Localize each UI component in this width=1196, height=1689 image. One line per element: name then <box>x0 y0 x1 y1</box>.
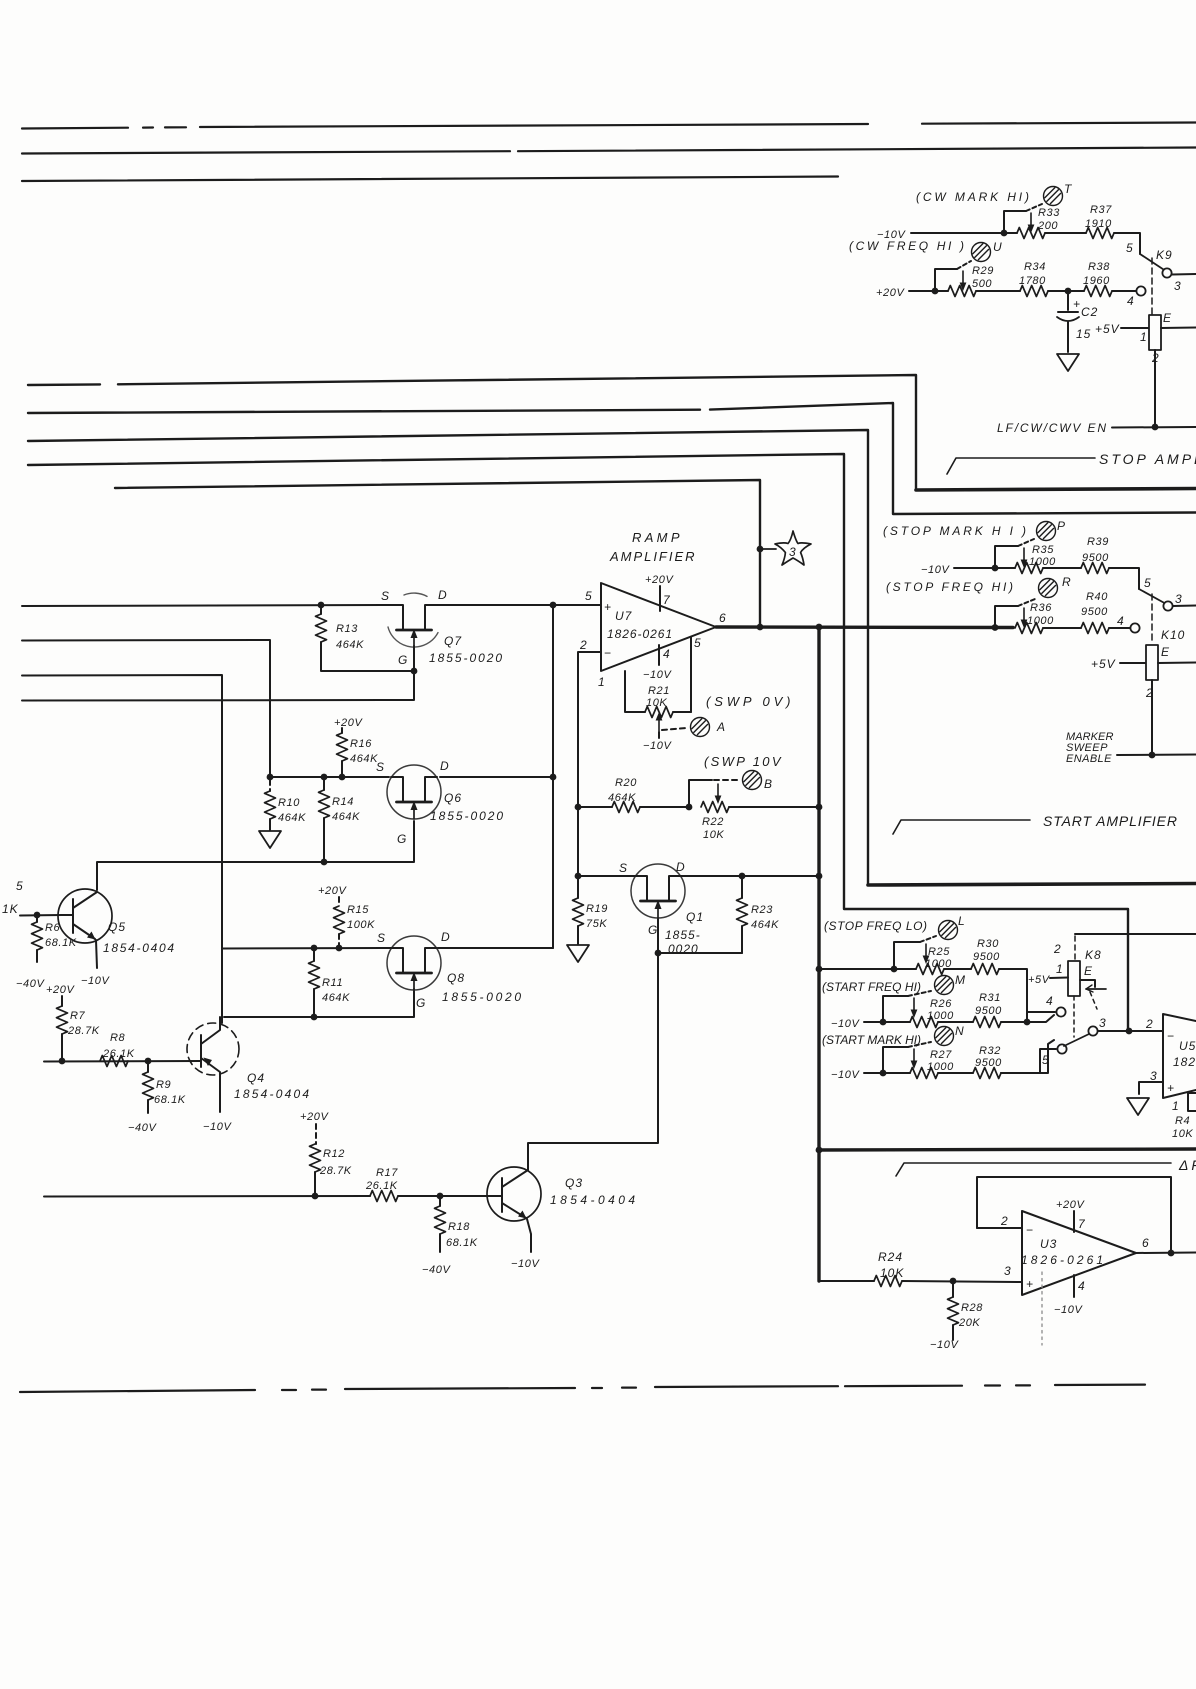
svg-text:10K: 10K <box>703 829 724 841</box>
svg-text:R40: R40 <box>1086 591 1108 603</box>
svg-text:R26: R26 <box>930 998 952 1010</box>
svg-text:Q6: Q6 <box>444 791 462 805</box>
potentiometer R33 200 <box>1001 204 1061 239</box>
svg-text:M: M <box>955 973 966 987</box>
svg-text:R15: R15 <box>347 904 369 916</box>
svg-text:−10V: −10V <box>643 669 672 681</box>
svg-text:R24: R24 <box>878 1250 903 1264</box>
svg-text:R22: R22 <box>702 816 724 828</box>
resistor R41 10K (partial, page edge) <box>1188 1093 1196 1111</box>
svg-text:6: 6 <box>719 611 726 625</box>
svg-text:2: 2 <box>1000 1214 1008 1228</box>
svg-text:4: 4 <box>1117 614 1124 628</box>
svg-text:3: 3 <box>1004 1264 1011 1278</box>
relay K8 coil <box>1068 961 1080 996</box>
fold artifact (faint) <box>1041 1272 1043 1345</box>
svg-text:(STOP MARK H I ): (STOP MARK H I ) <box>883 524 1027 538</box>
resistor R10 464K to ground <box>259 774 306 848</box>
svg-text:6: 6 <box>1142 1236 1149 1250</box>
relay K10 coil <box>1146 645 1158 680</box>
transistor Q7 1855-0020 <box>381 588 503 674</box>
transistor Q8 1855-0020 <box>377 930 522 1010</box>
svg-text:Q1: Q1 <box>686 910 704 924</box>
svg-text:5: 5 <box>1042 1053 1049 1067</box>
wire K9 coil to enable <box>1154 350 1156 427</box>
svg-text:(SWP 10V: (SWP 10V <box>704 754 782 769</box>
wire R20/R22 row <box>578 806 817 808</box>
svg-text:4: 4 <box>1078 1279 1085 1293</box>
svg-text:5: 5 <box>1144 576 1151 590</box>
wire drain bus vertical <box>552 605 554 948</box>
wire delta section feed (heavy) <box>819 1149 1196 1150</box>
relay K8 contact 4 <box>1027 1012 1055 1022</box>
potentiometer R22 10K <box>686 780 729 841</box>
wire Q5 base <box>20 914 62 917</box>
svg-text:−40V: −40V <box>16 978 45 990</box>
svg-text:R39: R39 <box>1087 536 1109 548</box>
label delta amplifier leader <box>896 1163 1171 1176</box>
svg-text:R36: R36 <box>1030 602 1052 614</box>
wire bus L5 <box>115 480 760 627</box>
svg-text:1855-0020: 1855-0020 <box>430 809 504 823</box>
wire enable out <box>1112 426 1196 429</box>
svg-text:464K: 464K <box>332 811 360 823</box>
svg-text:1854-0404: 1854-0404 <box>550 1193 636 1207</box>
svg-text:464K: 464K <box>278 812 306 824</box>
svg-text:+: + <box>1167 1081 1174 1095</box>
node star flag 3 <box>757 546 764 553</box>
svg-text:L: L <box>958 914 966 928</box>
svg-text:−: − <box>604 646 611 660</box>
border stop amplifier (heavy) <box>916 489 1196 491</box>
svg-text:4: 4 <box>1127 294 1134 308</box>
relay K8 arm <box>1064 1034 1089 1046</box>
svg-text:STOP AMPLI: STOP AMPLI <box>1099 451 1196 467</box>
svg-text:B: B <box>764 777 773 791</box>
test point L <box>939 921 958 940</box>
svg-text:1855-0020: 1855-0020 <box>442 990 522 1004</box>
svg-text:100K: 100K <box>347 919 375 931</box>
relay K8 contact 5 <box>1001 1049 1056 1073</box>
svg-text:9500: 9500 <box>1082 552 1109 564</box>
svg-text:G: G <box>398 653 408 667</box>
svg-text:K10: K10 <box>1161 628 1185 642</box>
svg-text:Q3: Q3 <box>565 1176 583 1190</box>
svg-text:1826-0261: 1826-0261 <box>607 627 673 641</box>
svg-text:1000: 1000 <box>1027 615 1054 627</box>
svg-text:R34: R34 <box>1024 261 1046 273</box>
svg-text:500: 500 <box>972 278 992 290</box>
transistor Q5 1854-0404 <box>58 889 175 987</box>
resistor R8 26.1K <box>100 1032 135 1067</box>
relay K8 contact 3 <box>1088 1026 1097 1035</box>
svg-text:5: 5 <box>16 879 24 893</box>
wire bus L2 <box>28 403 1196 514</box>
svg-text:1910: 1910 <box>1085 218 1112 230</box>
resistor R28 20K <box>930 1281 983 1351</box>
resistor R40 9500 <box>1081 591 1109 634</box>
svg-text:−40V: −40V <box>128 1122 157 1134</box>
svg-text:1854-0404: 1854-0404 <box>234 1087 310 1101</box>
svg-text:R27: R27 <box>930 1049 952 1061</box>
svg-text:AMPLIFIER: AMPLIFIER <box>609 549 696 564</box>
potentiometer R27 1000 <box>880 1042 955 1079</box>
svg-text:1000: 1000 <box>925 958 952 970</box>
resistor R7 28.7K <box>57 996 100 1061</box>
svg-text:3: 3 <box>1175 592 1182 606</box>
svg-text:26.1K: 26.1K <box>102 1048 135 1060</box>
power -10V pin4 <box>658 645 660 665</box>
svg-text:R28: R28 <box>961 1302 983 1314</box>
svg-text:−: − <box>1167 1029 1174 1043</box>
svg-text:1000: 1000 <box>927 1010 954 1022</box>
svg-text:R14: R14 <box>332 796 354 808</box>
wire bus L1 to stop-section border <box>28 375 916 490</box>
svg-text:−10V: −10V <box>831 1069 860 1081</box>
svg-text:464K: 464K <box>350 753 378 765</box>
svg-text:5: 5 <box>585 589 592 603</box>
wire K8 pin2 in <box>1075 933 1196 935</box>
svg-text:R33: R33 <box>1038 207 1060 219</box>
svg-text:1780: 1780 <box>1019 275 1046 287</box>
svg-text:START AMPLIFIER: START AMPLIFIER <box>1043 813 1180 829</box>
svg-text:R4: R4 <box>1175 1115 1190 1127</box>
svg-text:D: D <box>676 860 686 874</box>
svg-text:1000: 1000 <box>927 1061 954 1073</box>
svg-text:+: + <box>1026 1277 1033 1291</box>
ground U5 pin3 <box>1127 1098 1149 1115</box>
resistor R11 464K <box>309 945 351 1021</box>
potentiometer R26 1000 <box>880 991 955 1028</box>
resistor R23 464K <box>737 876 780 953</box>
svg-text:G: G <box>397 832 407 846</box>
resistor R34 1780 <box>1019 261 1048 297</box>
svg-text:R38: R38 <box>1088 261 1110 273</box>
resistor R14 464K <box>319 774 361 866</box>
test point M <box>935 976 954 995</box>
svg-text:ENABLE: ENABLE <box>1066 753 1112 765</box>
svg-text:5: 5 <box>1126 241 1133 255</box>
svg-text:R23: R23 <box>751 904 773 916</box>
svg-text:68.1K: 68.1K <box>446 1237 478 1249</box>
svg-text:R31: R31 <box>979 992 1001 1004</box>
wire U3 output <box>1136 1252 1196 1255</box>
svg-text:20K: 20K <box>958 1317 980 1329</box>
svg-text:7: 7 <box>1078 1217 1086 1231</box>
resistor R9 68.1K <box>128 1061 186 1134</box>
svg-text:T: T <box>1064 182 1073 196</box>
relay K9 contact 4 <box>1136 286 1145 295</box>
svg-text:K8: K8 <box>1085 948 1102 962</box>
wire W1 to Q7 source <box>22 605 601 606</box>
svg-text:R10: R10 <box>278 797 300 809</box>
svg-text:R8: R8 <box>110 1032 126 1044</box>
svg-text:−10V: −10V <box>203 1121 232 1133</box>
svg-text:9500: 9500 <box>973 951 1000 963</box>
resistor R39 9500 <box>1081 536 1109 574</box>
svg-text:9500: 9500 <box>1081 606 1108 618</box>
wire R24 row <box>819 1281 1022 1282</box>
svg-text:R35: R35 <box>1032 544 1054 556</box>
svg-text:464K: 464K <box>322 992 350 1004</box>
svg-text:75K: 75K <box>586 918 607 930</box>
svg-text:+5V: +5V <box>1028 974 1051 986</box>
svg-text:200: 200 <box>1037 220 1058 232</box>
op-amp U5 (partial) <box>1145 1014 1196 1113</box>
svg-text:9500: 9500 <box>975 1057 1002 1069</box>
label STOP AMPLIFIER leader <box>947 458 1095 474</box>
test point N <box>935 1027 954 1046</box>
svg-text:68.1K: 68.1K <box>45 937 77 949</box>
svg-text:2: 2 <box>1053 942 1061 956</box>
wire U5 pin3 to ground <box>1139 1082 1163 1094</box>
svg-text:+20V: +20V <box>318 885 347 897</box>
wire W2 to Q6 source <box>22 640 553 777</box>
wire U3 pin2 <box>977 1227 1022 1229</box>
svg-text:+: + <box>604 600 611 614</box>
svg-text:R18: R18 <box>448 1221 470 1233</box>
wire U3 feedback loop <box>977 1177 1171 1253</box>
svg-text:9500: 9500 <box>975 1005 1002 1017</box>
svg-text:Q4: Q4 <box>247 1071 265 1085</box>
svg-text:G: G <box>648 923 658 937</box>
op-amp U3 1826-0261 <box>1004 1211 1149 1295</box>
wire K9 coil E out <box>1161 327 1196 330</box>
svg-text:U3: U3 <box>1040 1237 1057 1251</box>
svg-text:R: R <box>1062 575 1072 589</box>
svg-text:−: − <box>1026 1223 1033 1237</box>
test point T <box>1044 187 1063 206</box>
resistor R37 1910 <box>1085 204 1114 239</box>
resistor R12 28.7K <box>310 1124 352 1196</box>
svg-text:+20V: +20V <box>876 287 905 299</box>
wire Q3 collector to Q1 gate <box>528 953 658 1170</box>
resistor R24 10K <box>874 1250 904 1287</box>
test point P <box>1037 522 1056 541</box>
svg-text:R30: R30 <box>977 938 999 950</box>
svg-text:28.7K: 28.7K <box>67 1025 100 1037</box>
svg-text:15: 15 <box>1076 327 1091 341</box>
wire W7 Q3 base row <box>44 1195 490 1198</box>
transistor Q4 1854-0404 <box>187 1017 310 1133</box>
label START AMPLIFIER leader <box>893 820 1030 834</box>
svg-text:−10V: −10V <box>643 740 672 752</box>
svg-text:+20V: +20V <box>46 984 75 996</box>
svg-text:(START FREQ HI): (START FREQ HI) <box>822 980 922 994</box>
svg-text:−10V: −10V <box>81 975 110 987</box>
wire W6 Q4 base row <box>44 1060 201 1063</box>
svg-text:1855-: 1855- <box>665 928 701 942</box>
svg-text:R29: R29 <box>972 265 994 277</box>
svg-text:S: S <box>381 589 390 603</box>
svg-text:7: 7 <box>663 593 671 607</box>
svg-text:−10V: −10V <box>930 1339 959 1351</box>
svg-text:4: 4 <box>1046 994 1053 1008</box>
svg-text:2: 2 <box>579 638 587 652</box>
wire contact 3 out <box>1172 273 1196 276</box>
svg-text:10K: 10K <box>880 1266 904 1280</box>
svg-text:U7: U7 <box>615 609 633 623</box>
svg-text:−10V: −10V <box>831 1018 860 1030</box>
resistor R31 9500 <box>973 992 1002 1028</box>
svg-text:68.1K: 68.1K <box>154 1094 186 1106</box>
svg-text:(STOP FREQ LO): (STOP FREQ LO) <box>824 919 928 933</box>
resistor R16 464K from +20V <box>334 717 378 780</box>
transistor Q3 1854-0404 <box>487 1167 636 1270</box>
svg-text:(CW MARK HI): (CW MARK HI) <box>916 190 1030 204</box>
svg-text:U5: U5 <box>1179 1039 1196 1053</box>
svg-text:+20V: +20V <box>300 1111 329 1123</box>
svg-text:+: + <box>1073 297 1080 311</box>
capacitor C2 15 <box>1057 291 1098 352</box>
wire W3 to Q8 source <box>22 675 553 1023</box>
svg-text:P: P <box>1057 519 1066 533</box>
test point U <box>972 243 991 262</box>
wire sweep bus vertical (heavy) <box>817 627 820 1281</box>
svg-text:1: 1 <box>598 675 605 689</box>
wire R25 row <box>819 969 1027 1022</box>
svg-text:464K: 464K <box>336 639 364 651</box>
transistor Q6 1855-0020 <box>376 759 504 846</box>
svg-text:−40V: −40V <box>422 1264 451 1276</box>
wire K10 coil E out <box>1158 662 1196 665</box>
svg-text:S: S <box>377 931 386 945</box>
svg-text:182: 182 <box>1173 1055 1196 1069</box>
wire feedback vertical to pin 5 <box>690 637 692 712</box>
svg-text:R21: R21 <box>648 685 670 697</box>
svg-text:−10V: −10V <box>921 564 950 576</box>
border start amplifier (heavy) <box>868 884 1196 886</box>
resistor R19 75K to ground <box>567 876 608 962</box>
svg-text:A: A <box>716 720 726 734</box>
svg-text:1K: 1K <box>2 902 19 916</box>
wire K10 coil to marker enable <box>1151 680 1153 755</box>
svg-text:C2: C2 <box>1081 305 1098 319</box>
svg-text:ΔF: ΔF <box>1178 1157 1196 1173</box>
linkage K8 (dashed) <box>1074 992 1097 1037</box>
svg-text:G: G <box>416 996 426 1010</box>
svg-text:+20V: +20V <box>1056 1199 1085 1211</box>
wire bus L3 to start-section border <box>28 430 868 885</box>
wire top bus 2 <box>22 148 1196 154</box>
svg-text:26.1K: 26.1K <box>365 1180 398 1192</box>
wire Q8 gate row <box>224 989 414 1017</box>
svg-text:E: E <box>1161 645 1170 659</box>
resistor R32 9500 <box>973 1045 1002 1079</box>
potentiometer R35 1000 <box>992 539 1057 574</box>
svg-text:+5V: +5V <box>1091 657 1116 671</box>
svg-text:LF/CW/CWV EN: LF/CW/CWV EN <box>997 421 1107 435</box>
svg-text:(START MARK HI): (START MARK HI) <box>822 1033 922 1047</box>
svg-text:R19: R19 <box>586 903 608 915</box>
wire U7 output row R36 <box>1043 627 1130 629</box>
svg-text:1000: 1000 <box>1029 556 1056 568</box>
svg-text:4: 4 <box>663 647 670 661</box>
svg-text:10K: 10K <box>1172 1128 1193 1140</box>
svg-text:R16: R16 <box>350 738 372 750</box>
resistor R17 26.1K <box>365 1167 398 1202</box>
svg-text:R20: R20 <box>615 777 637 789</box>
svg-text:R9: R9 <box>156 1079 171 1091</box>
svg-text:Q8: Q8 <box>447 971 465 985</box>
svg-text:D: D <box>438 588 448 602</box>
svg-text:2: 2 <box>1145 1017 1153 1031</box>
wire K8 contact 3 to U5 pin 2 <box>1098 1030 1163 1032</box>
transistor Q1 1855-0020 <box>619 860 704 956</box>
svg-text:R6: R6 <box>45 922 61 934</box>
wire U7 output (heavy) <box>716 625 1013 629</box>
potentiometer R29 500 <box>932 261 994 297</box>
svg-text:1960: 1960 <box>1083 275 1110 287</box>
svg-text:−10V: −10V <box>511 1258 540 1270</box>
svg-text:464K: 464K <box>751 919 779 931</box>
op-amp U7 1826-0261 <box>579 583 726 689</box>
relay K9 coil <box>1149 315 1161 350</box>
svg-text:3: 3 <box>1099 1016 1106 1030</box>
svg-text:R32: R32 <box>979 1045 1001 1057</box>
resistor R38 1960 <box>1083 261 1112 297</box>
svg-text:1: 1 <box>1172 1099 1179 1113</box>
svg-text:1826-0261: 1826-0261 <box>1021 1253 1104 1267</box>
svg-text:R11: R11 <box>322 977 343 989</box>
wire contact 3 out <box>1173 605 1196 608</box>
svg-text:R12: R12 <box>323 1148 345 1160</box>
test point B <box>743 771 762 790</box>
svg-text:(STOP FREQ HI): (STOP FREQ HI) <box>886 580 1014 594</box>
resistor R6 68.1K <box>16 915 77 990</box>
resistor R15 100K from +20V <box>318 885 375 951</box>
svg-text:464K: 464K <box>608 792 636 804</box>
svg-text:28.7K: 28.7K <box>319 1165 352 1177</box>
linkage K10 (dashed) <box>1151 594 1153 644</box>
svg-text:Q7: Q7 <box>444 634 462 648</box>
svg-text:E: E <box>1084 964 1093 978</box>
svg-text:1855-0020: 1855-0020 <box>429 651 503 665</box>
svg-text:3: 3 <box>1174 279 1181 293</box>
node drain bus junctions <box>550 602 557 609</box>
svg-text:(SWP 0V): (SWP 0V) <box>706 694 792 709</box>
svg-text:U: U <box>993 240 1003 254</box>
svg-text:−10V: −10V <box>1054 1304 1083 1316</box>
wire top bus 3 <box>22 177 838 182</box>
svg-text:3: 3 <box>1150 1069 1157 1083</box>
power -10V U3 pin4 <box>1073 1275 1075 1297</box>
wire K8 coil E hook <box>1080 980 1095 987</box>
relay K10 contact 4 <box>1130 623 1139 632</box>
wire Q1 gate node <box>658 919 742 953</box>
wire top bus 1 <box>22 123 1196 129</box>
potentiometer R21 10K <box>625 671 691 752</box>
svg-text:10K: 10K <box>646 697 667 709</box>
resistor R18 68.1K <box>422 1196 478 1276</box>
relay K8 <box>1001 934 1196 1073</box>
svg-text:D: D <box>440 759 450 773</box>
svg-text:1: 1 <box>1140 330 1147 344</box>
svg-text:R25: R25 <box>928 946 950 958</box>
svg-text:+20V: +20V <box>645 574 674 586</box>
svg-text:+5V: +5V <box>1095 322 1120 336</box>
ground under C2 <box>1057 354 1079 371</box>
potentiometer R36 1000 <box>992 599 1055 634</box>
resistor R30 9500 <box>971 938 1000 975</box>
svg-text:3: 3 <box>789 545 796 559</box>
svg-text:RAMP: RAMP <box>632 530 681 545</box>
svg-text:R7: R7 <box>70 1010 86 1022</box>
wire marker enable out <box>1117 754 1196 757</box>
potentiometer R25 1000 <box>891 936 953 975</box>
svg-text:R37: R37 <box>1090 204 1112 216</box>
resistor R20 464K <box>612 802 640 813</box>
